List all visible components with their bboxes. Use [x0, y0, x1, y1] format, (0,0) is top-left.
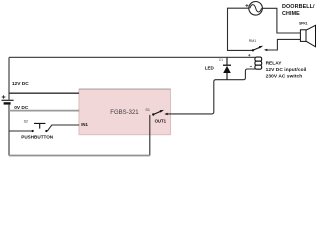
- wire pushbutton to IN1: [47, 125, 79, 131]
- wire relay switch to speaker bottom terminal: [267, 39, 300, 50]
- svg-text:D1: D1: [219, 58, 223, 62]
- battery B1 minus plate: [4, 102, 11, 104]
- wire 0V DC feed to module: [9, 110, 79, 112]
- wire AC source to speaker top terminal: [262, 8, 300, 33]
- switch S1 pivot dot: [152, 113, 154, 115]
- switch S1 contact arrowhead: [164, 113, 167, 115]
- pushbutton S2 contact dot left: [31, 130, 33, 132]
- svg-text:RM1: RM1: [249, 39, 257, 43]
- speaker SPK1: [300, 25, 315, 47]
- relay coil plus mark: [248, 54, 250, 56]
- svg-text:S1: S1: [145, 108, 150, 112]
- LED D1 cathode wire: [226, 73, 228, 80]
- relay switch RM1 arrowhead: [259, 46, 263, 49]
- wire 0V rail to pushbutton: [9, 130, 31, 132]
- svg-text:IN1: IN1: [81, 122, 88, 127]
- relay switch RM1 contact arrowhead: [264, 49, 267, 51]
- svg-text:OUT1: OUT1: [155, 118, 167, 123]
- pushbutton S2 plunger: [34, 123, 45, 128]
- battery plus sign: [2, 95, 6, 99]
- svg-text:RELAY: RELAY: [266, 60, 283, 66]
- switch S1 arrowhead: [160, 110, 164, 113]
- module FGBS-321 box: [79, 89, 171, 134]
- relay switch RM1 blade: [253, 47, 260, 50]
- LED D1 cathode bar: [223, 64, 231, 66]
- svg-text:S2: S2: [24, 120, 29, 124]
- relay coil RM1 loop 2: [255, 61, 262, 65]
- svg-text:SPK1: SPK1: [299, 21, 308, 25]
- svg-text:12V DC input/coil: 12V DC input/coil: [266, 67, 307, 73]
- switch S1 blade: [153, 111, 161, 114]
- wire left rail upper: [8, 57, 10, 99]
- AC source G1 (doorbell transformer): [245, 2, 262, 16]
- svg-text:230V AC switch: 230V AC switch: [266, 73, 303, 79]
- svg-text:12V DC: 12V DC: [12, 81, 29, 87]
- wire 12V DC feed to module: [9, 92, 79, 94]
- battery B1 plus plate: [2, 99, 14, 101]
- LED D1 anode wire: [226, 57, 228, 64]
- module box top shade: [79, 88, 171, 90]
- wire bottom return rail: [9, 155, 150, 157]
- pushbutton S2 contact dot right: [45, 130, 47, 132]
- svg-text:DOORBELL/: DOORBELL/: [282, 4, 315, 10]
- svg-text:CHIME: CHIME: [282, 11, 300, 17]
- svg-text:LED: LED: [205, 65, 215, 70]
- wire S1 pivot to bottom rail: [149, 115, 151, 156]
- svg-text:PUSHBUTTON: PUSHBUTTON: [21, 134, 53, 139]
- wire top loop left (AC source to relay feed corner): [228, 8, 253, 50]
- wire 12V rail (battery top to relay coil): [9, 56, 255, 58]
- wire left rail lower: [8, 105, 10, 156]
- relay coil RM1 loop 1: [255, 57, 262, 61]
- relay coil minus mark: [250, 66, 252, 68]
- LED D1 triangle: [223, 66, 231, 73]
- relay coil RM1 loop 3: [255, 65, 262, 69]
- relay switch RM1 pivot dot: [252, 49, 254, 51]
- wire OUT1 to relay coil and LED: [167, 69, 255, 114]
- svg-text:FGBS-321: FGBS-321: [110, 110, 139, 116]
